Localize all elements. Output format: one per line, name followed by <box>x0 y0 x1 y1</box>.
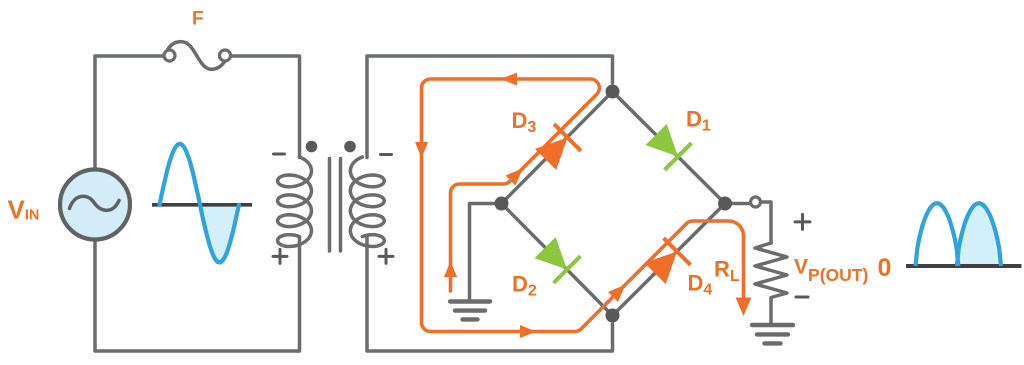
svg-text:D3: D3 <box>512 108 537 136</box>
svg-text:0: 0 <box>878 254 892 282</box>
svg-text:VP(OUT): VP(OUT) <box>794 255 868 285</box>
svg-text:D2: D2 <box>512 272 537 300</box>
svg-text:VIN: VIN <box>8 195 40 225</box>
svg-text:D1: D1 <box>686 107 711 135</box>
svg-text:D4: D4 <box>688 271 713 299</box>
svg-text:RL: RL <box>714 256 740 285</box>
svg-text:F: F <box>192 9 204 30</box>
